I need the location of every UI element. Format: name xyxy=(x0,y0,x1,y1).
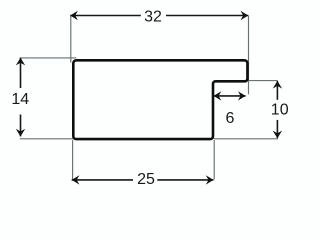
svg-text:10: 10 xyxy=(271,102,289,119)
svg-text:6: 6 xyxy=(225,110,234,127)
svg-text:32: 32 xyxy=(144,9,162,26)
svg-text:14: 14 xyxy=(11,91,29,108)
svg-text:25: 25 xyxy=(137,171,155,188)
